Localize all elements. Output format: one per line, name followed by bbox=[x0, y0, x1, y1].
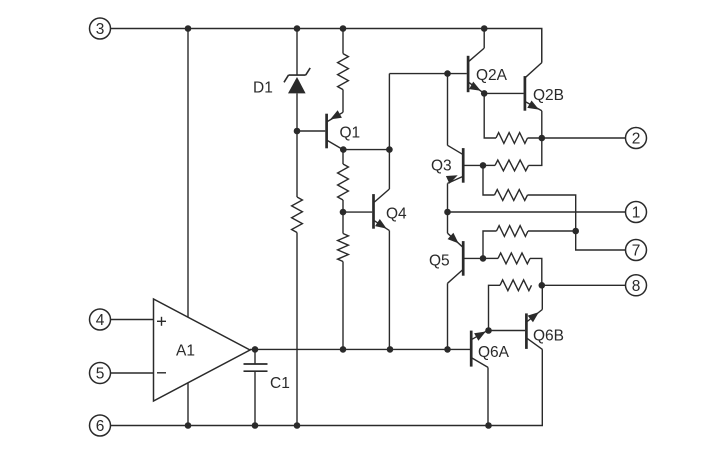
pin 3 (supply) bbox=[90, 18, 111, 39]
wire D1 anode to Q1 base bbox=[297, 130, 325, 132]
wire D1 anode to bias resistor bbox=[296, 131, 298, 197]
wire output node to pin 1 bbox=[448, 211, 626, 213]
wire Q4 emitter to output row bbox=[388, 231, 390, 350]
wire top supply rail from pin 3 to Q2B collector corner bbox=[111, 29, 542, 63]
wire top rail to D1 cathode bbox=[296, 29, 298, 76]
node Q1 collector junction bbox=[340, 146, 347, 153]
svg-text:Q2A: Q2A bbox=[476, 67, 508, 84]
node Q2A emitter / Q2B base bbox=[481, 90, 488, 97]
node pin2 junction bbox=[539, 135, 546, 142]
pin 5 (inverting input) bbox=[90, 363, 111, 384]
label Q6A bbox=[478, 344, 510, 361]
wire Q6B emitter up to pin8 node bbox=[541, 285, 543, 309]
wire junction to Q2A base bbox=[448, 73, 467, 75]
transistor Q6B bbox=[526, 310, 542, 350]
wire Q4 base node to bias resistor 3 bbox=[342, 212, 344, 233]
pin 4 (non-inverting input) bbox=[90, 309, 111, 330]
wire bottom ground rail from pin 6 to Q6B collector corner bbox=[111, 349, 543, 425]
svg-text:D1: D1 bbox=[253, 79, 273, 96]
node Q6A emitter / Q6B base bbox=[485, 327, 492, 334]
wire bias resistor 3 to output row bbox=[342, 262, 344, 350]
wire Q2B collector to top rail corner bbox=[541, 29, 543, 62]
resistor R row6 bbox=[500, 280, 532, 291]
svg-text:Q4: Q4 bbox=[386, 206, 407, 223]
resistor bias 2 bbox=[338, 164, 349, 200]
label Q2B bbox=[533, 87, 564, 104]
wire D1 resistor to ground rail bbox=[296, 233, 298, 426]
node Q3/Q5 emitters output bbox=[444, 209, 451, 216]
wire Q1 collector to bias resistor 2 bbox=[342, 150, 344, 164]
svg-text:8: 8 bbox=[632, 278, 641, 295]
op-amp A1 bbox=[154, 299, 251, 401]
wire pin7 node to pin 7 bbox=[576, 231, 626, 250]
label Q3 bbox=[431, 158, 452, 175]
wire top rail to bias resistor 1 bbox=[342, 29, 344, 54]
svg-text:C1: C1 bbox=[270, 375, 290, 392]
wire Q3 emitter down to output node bbox=[447, 183, 449, 212]
wire Q3 base to node bbox=[463, 164, 483, 166]
svg-text:Q1: Q1 bbox=[340, 125, 361, 142]
wire Q5 emitter up to output node bbox=[447, 212, 449, 233]
svg-text:1: 1 bbox=[632, 205, 641, 222]
node Q2A base / Q3 collector bbox=[444, 70, 451, 77]
resistor R row1 bbox=[496, 133, 528, 144]
node pin8 junction bbox=[539, 282, 546, 289]
wire Q5 base node to row5 bbox=[483, 257, 498, 259]
wire pin 4 to A1 + input bbox=[111, 319, 154, 321]
wire Q4 collector corner to Q2A base junction bbox=[389, 73, 447, 75]
wire row3 right to pin7 node bbox=[528, 195, 576, 231]
svg-text:5: 5 bbox=[96, 366, 105, 383]
wire Q1 collector junction to Q4 collector column bbox=[343, 149, 390, 151]
junction on top rail at Q2A collector bbox=[481, 25, 488, 32]
wire Q2B emitter down to pin2 node bbox=[541, 111, 543, 138]
transistor Q6A bbox=[471, 330, 488, 367]
resistor bias 1 bbox=[338, 54, 349, 90]
wire pin8 node to pin 8 bbox=[542, 284, 626, 286]
transistor Q3 bbox=[446, 145, 463, 183]
transistor Q5 bbox=[448, 233, 464, 283]
transistor Q1 bbox=[327, 110, 343, 149]
resistor R row3 bbox=[495, 190, 528, 201]
svg-text:7: 7 bbox=[632, 243, 641, 260]
wire Q2A emitter down to R row1 bbox=[484, 93, 496, 138]
wire A1 output row to Q6A base bbox=[250, 348, 471, 350]
pin 8 bbox=[626, 275, 647, 296]
node pin7 junction bbox=[572, 228, 579, 235]
svg-text:Q6A: Q6A bbox=[478, 344, 510, 361]
junction on top rail at D1 column bbox=[294, 25, 301, 32]
wire Q4 base node to Q4 bbox=[343, 211, 372, 213]
node Q4 base bbox=[340, 209, 347, 216]
wire pin 5 to A1 - input bbox=[111, 372, 154, 374]
node Q4 collector bbox=[386, 146, 393, 153]
junction output row at Q4 emitter bbox=[387, 346, 394, 353]
label D1 bbox=[253, 79, 273, 96]
resistor R row5 bbox=[498, 253, 530, 264]
junction on ground rail at C1 bbox=[252, 422, 259, 429]
resistor in D1 column bbox=[292, 197, 303, 233]
transistor Q4 bbox=[374, 189, 390, 231]
junction on top rail at bias resistor column bbox=[340, 25, 347, 32]
node A1 output bbox=[252, 346, 259, 353]
capacitor C1 bbox=[244, 349, 268, 425]
svg-text:A1: A1 bbox=[176, 343, 195, 360]
wire Q2A collector to top rail bbox=[483, 29, 485, 49]
pin 1 bbox=[626, 202, 647, 223]
wire bias resistor 2 to Q4 base node bbox=[342, 200, 344, 212]
resistor R row4 bbox=[497, 226, 529, 237]
wire Q6A collector to ground rail bbox=[487, 367, 489, 425]
junction on ground rail at Q6A collector bbox=[485, 422, 492, 429]
transistor Q2A bbox=[468, 48, 484, 93]
zener diode D1 bbox=[284, 68, 310, 131]
wire row1 to pin 2 bbox=[528, 137, 626, 139]
svg-text:Q5: Q5 bbox=[429, 253, 450, 270]
wire Q2A emitter junction to Q2B base bbox=[484, 92, 523, 94]
svg-text:Q2B: Q2B bbox=[533, 87, 564, 104]
wire bias resistor 1 to Q1 emitter bbox=[342, 90, 344, 113]
junction on ground rail at D1 resistor column bbox=[294, 422, 301, 429]
wire A1 supply column (top rail to ground rail through A1) bbox=[187, 29, 189, 426]
node Q5 base bbox=[480, 255, 487, 262]
wire row6 left down to Q6B base node bbox=[489, 285, 501, 330]
label Q5 bbox=[429, 253, 450, 270]
label Q1 bbox=[340, 125, 361, 142]
wire row4 left corner to Q5 base node bbox=[483, 231, 497, 258]
pin 7 bbox=[626, 240, 647, 261]
resistor bias 3 bbox=[338, 234, 349, 262]
wire Q3 base node to row2 resistor bbox=[483, 164, 495, 166]
svg-text:4: 4 bbox=[96, 312, 105, 329]
label C1 bbox=[270, 375, 290, 392]
node Q3 base bbox=[480, 162, 487, 169]
wire pin2 node down to row2 right end bbox=[529, 138, 542, 165]
wire Q5 base to node bbox=[463, 257, 483, 259]
wire Q4 collector up to Q1 junction bbox=[388, 74, 390, 189]
label Q4 bbox=[386, 206, 407, 223]
wire Q6B base node to Q6B bbox=[489, 330, 526, 332]
junction on ground rail at A1 supply column bbox=[185, 422, 192, 429]
svg-text:Q3: Q3 bbox=[431, 158, 452, 175]
svg-text:6: 6 bbox=[96, 418, 105, 435]
svg-text:Q6B: Q6B bbox=[533, 328, 564, 345]
node D1 anode / Q1 base bbox=[294, 128, 301, 135]
pin 2 bbox=[626, 128, 647, 149]
wire junction down to Q3 collector bbox=[447, 74, 449, 146]
svg-text:2: 2 bbox=[632, 131, 641, 148]
transistor Q2B bbox=[525, 63, 542, 111]
svg-text:3: 3 bbox=[96, 21, 105, 38]
label Q2A bbox=[476, 67, 508, 84]
wire row4 right to pin7 node bbox=[528, 230, 576, 232]
junction output row at bias column bbox=[340, 346, 347, 353]
junction output row at Q5 collector bbox=[444, 346, 451, 353]
wire Q5 collector down to output row bbox=[447, 283, 449, 349]
wire Q3 base node down to row3 bbox=[483, 165, 495, 195]
pin 6 (ground) bbox=[90, 415, 111, 436]
label Q6B bbox=[533, 328, 564, 345]
wire row5 right down to pin8 node bbox=[530, 258, 542, 285]
resistor R row2 bbox=[495, 160, 529, 171]
junction on top rail at A1 supply column bbox=[185, 25, 192, 32]
